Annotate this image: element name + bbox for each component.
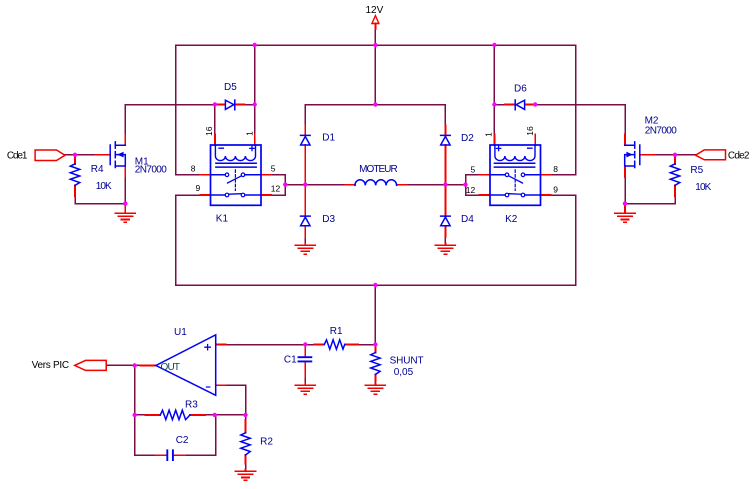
wire D4 to ground [444,237,446,244]
wire M2 source lower [624,177,626,204]
wire 12V stem to center rail [374,29,376,105]
svg-text:5: 5 [470,165,475,175]
M1 drain pin [124,135,126,146]
diode D6 [515,100,524,110]
wire left vertical to K1 pin8 [176,45,201,175]
M1 gate pin [96,154,111,156]
shunt ground stem [374,384,376,385]
svg-text:1: 1 [483,132,493,137]
K2 pin1 [493,135,495,146]
wire R2 upper [245,415,247,420]
wire right vertical to K2 pin8 [551,45,576,175]
svg-text:Cde1: Cde1 [7,150,28,161]
C1 top pin [304,345,306,357]
node K1 pin1 / D5 cathode [253,102,257,106]
wire R4 bottom to M1 source [75,196,125,204]
wire D1 upper stub [304,105,306,126]
wire K1 pin1 node to top rail [254,45,256,135]
D4 cathode pin [444,185,446,217]
svg-text:R3: R3 [185,400,198,411]
K1 pin8 [201,174,211,176]
diode D2 [441,135,451,145]
wire K2 pin1 node to top rail [493,45,495,135]
terminal Cde2 [696,150,726,160]
motor inductor coil [355,180,397,186]
C2 right pin [174,454,185,456]
relay K1 [211,145,262,205]
svg-text:Vers PIC: Vers PIC [32,360,70,371]
ground under shunt [365,385,385,394]
D1 anode pin [304,145,306,185]
wire bottom rail to shunt node [374,285,376,345]
M1 source pin [124,166,126,177]
PINS-RED [75,24,675,471]
M2 source pin [624,166,626,177]
wire K2 pin9 to bottom rail [551,195,576,285]
node top rail / K1 pin1 [253,43,257,47]
wire K1 pin9 to bottom rail [176,195,201,285]
terminal Cde1 [35,150,65,161]
D2 cathode pin [444,126,446,136]
K1 pin1 [254,135,256,146]
wire D5 cathode link [245,104,255,106]
GROUNDS [115,213,635,480]
resistor shunt body [371,353,380,375]
D2 anode pin [444,145,446,185]
svg-text:D2: D2 [461,133,474,144]
svg-text:R5: R5 [690,165,703,176]
wire D2 upper stub [444,105,446,126]
wire Cde1 to gate node [65,154,96,156]
R2 ground stem [245,470,247,471]
shunt bottom pin [374,375,376,382]
svg-text:D5: D5 [224,82,237,93]
wire R5 bottom to M2 source [625,196,675,204]
svg-text:D1: D1 [322,133,335,144]
svg-text:8: 8 [553,164,558,174]
relay K2 [490,145,541,205]
op-amp U1 [156,335,216,396]
D6 anode pin [525,104,535,106]
K1 pin9 [201,194,211,196]
M2 ground stem [624,204,626,213]
node D1-D3 motor [303,182,307,186]
wire R2 lower [245,464,247,470]
wire opamp minus to R2 node [226,385,246,415]
svg-text:9: 9 [196,183,201,193]
node M1 gate / R4 [73,153,77,157]
12V stem pin [374,24,376,30]
R5 bottom pin [674,185,676,196]
wire top +12V rail [176,44,576,46]
node center rail / 12V [373,102,377,106]
R1 left pin [315,344,325,346]
svg-text:K2: K2 [505,214,518,225]
node R3 left [133,413,137,417]
wire C1 lower [304,377,306,384]
svg-text:8: 8 [191,164,196,174]
wire M1 drain to K1 pin16 node [125,105,215,135]
resistor R5 body [670,164,679,185]
resistor R1 body [324,340,344,349]
node opamp out [133,363,137,367]
WIRES-MAROON [65,29,696,470]
power 12V symbol [372,16,379,24]
ground under M2 source [615,213,635,222]
svg-text:R1: R1 [330,326,343,337]
node D2-D4 motor [443,182,447,186]
svg-text:12: 12 [271,183,281,193]
svg-text:R2: R2 [260,437,273,448]
svg-text:1: 1 [244,131,254,136]
opamp minus pin [216,384,226,386]
svg-text:MOTEUR: MOTEUR [359,164,398,175]
wire R3 row [135,414,246,416]
node shunt / R1 [373,342,377,346]
wire gate node to Cde2 [655,154,696,156]
diode D1 [301,135,311,145]
opamp out pin [141,364,156,366]
node top rail / K2 pin1 [492,43,496,47]
node top rail / 12V [373,43,377,47]
svg-text:0,05: 0,05 [394,367,414,378]
wire bottom rail [176,284,576,286]
R2 bottom pin [245,455,247,464]
svg-text:C2: C2 [176,435,189,446]
R1 right pin [345,344,358,346]
ground under D4 [435,245,455,254]
K2 pin16 [534,135,536,146]
wire K1 pin16 stub upper [214,105,216,135]
svg-text:D4: D4 [461,214,474,225]
shunt top pin [374,345,376,353]
C1 bottom pin [304,362,306,377]
M2 gate pin [640,154,655,156]
motor left pin [345,184,355,186]
svg-text:Cde2: Cde2 [728,151,750,162]
node M1 source / R4 [123,201,127,205]
resistor R3 body [160,410,190,419]
svg-text:9: 9 [553,185,558,195]
diode D4 [441,216,451,226]
node K2 pin16 / D6 anode [533,102,537,106]
capacitor C2 plates [167,450,173,460]
svg-text:12: 12 [466,185,476,195]
svg-text:2N7000: 2N7000 [135,165,167,176]
svg-text:R4: R4 [91,164,104,175]
wire R1 right to shunt node [358,344,375,346]
svg-text:10K: 10K [96,181,112,192]
wire D6 anode to M2 drain [535,105,625,135]
K2 pin12 [480,194,491,196]
node R2 / minus [243,413,247,417]
ground under M1 source [115,213,135,222]
node K1 pin16 / D5 anode [213,102,217,106]
BLUE COMPONENT BODIES [70,100,679,460]
wire D6 cathode link [494,104,504,106]
wire M1 source lower [124,177,126,204]
mosfet M1 body [110,142,125,168]
svg-text:D3: D3 [322,214,335,225]
svg-text:C1: C1 [284,355,297,366]
wire D3 to ground [304,237,306,244]
svg-text:12V: 12V [366,5,384,16]
mosfet M2 body [625,142,640,168]
M1 ground stem [124,204,126,213]
svg-text:16: 16 [525,126,535,136]
node K1 motor [283,182,287,186]
svg-text:16: 16 [204,126,214,136]
diode D5 [225,100,234,110]
K1 pin12 [261,194,271,196]
C1 ground stem [304,384,306,385]
ground under C1 [295,385,315,394]
C2 left pin [155,454,166,456]
D4 ground stem [444,244,446,245]
opamp plus pin [216,344,226,346]
svg-text:10K: 10K [695,182,711,193]
D3 cathode pin [304,185,306,217]
D1 cathode pin [304,126,306,136]
R5 top pin [674,155,676,164]
wire K1 pins5-12 motor node [271,175,285,195]
M2 drain pin [624,135,626,146]
node K2 motor [463,182,467,186]
wire opamp plus to C1 node [226,344,306,346]
node C1 / R1 / plus [303,342,307,346]
diode D3 [301,216,311,226]
K2 pin9 [541,194,551,196]
K1 pin5 [261,174,271,176]
terminal Vers PIC [75,360,107,370]
svg-text:D6: D6 [514,83,527,94]
svg-text:5: 5 [271,163,276,173]
R4 top pin [74,155,76,164]
wire out node down to R3 [134,365,136,415]
R2 top pin [245,420,247,433]
node M2 gate / R5 [673,153,677,157]
wire Vers PIC to out node [106,364,140,366]
svg-text:K1: K1 [216,214,229,225]
motor right pin [397,184,407,186]
resistor R4 body [70,164,79,185]
resistor R2 body [241,433,250,455]
wire center rail D1-D2 [305,104,445,106]
D3 anode pin [304,226,306,237]
wire motor right segment [406,184,465,186]
svg-text:2N7000: 2N7000 [645,126,677,137]
wire shunt lower [374,381,376,384]
node M2 source / R5 [623,201,627,205]
R3 left pin [146,414,161,416]
D3 ground stem [304,244,306,245]
ground under R2 [236,471,256,480]
ground under D3 [295,245,315,254]
wire C2 loop [135,415,216,455]
wire K2 pins5-12 motor node [466,175,480,195]
node bottom rail / shunt [373,283,377,287]
D5 anode pin [215,104,225,106]
svg-text:U1: U1 [174,327,187,338]
K2 pin8 [541,174,551,176]
wire R1 left [305,344,314,346]
R3 right pin [190,414,205,416]
wire motor left segment [285,184,345,186]
node K2 pin1 / D6 cathode [492,102,496,106]
D4 anode pin [444,226,446,237]
node R3-C2 right [213,413,217,417]
K1 pin16 [214,135,216,146]
capacitor C1 plates [299,357,312,361]
K2 pin5 [480,174,491,176]
D6 cathode pin [505,104,515,106]
R4 bottom pin [74,185,76,196]
svg-text:OUT: OUT [161,362,181,373]
D5 cathode pin [235,104,245,106]
svg-text:SHUNT: SHUNT [390,355,424,366]
